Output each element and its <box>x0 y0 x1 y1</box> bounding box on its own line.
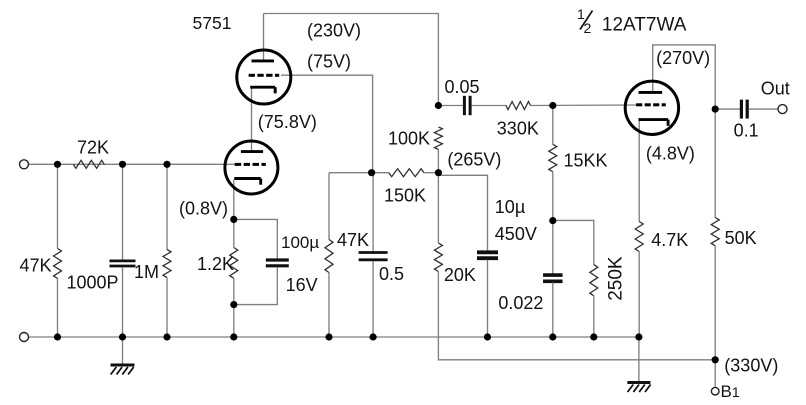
label (230V) <box>307 21 361 41</box>
node gnd/250K <box>590 333 597 340</box>
wire 1.2K bottom <box>233 278 235 337</box>
label 47K (node) <box>337 230 369 250</box>
node 330K / V2 grid <box>549 102 556 109</box>
node (330V) <box>712 356 719 363</box>
label (0.8V) <box>179 199 228 219</box>
wire 0.022 bottom <box>552 283 554 338</box>
triode V1b (upper half 5751) <box>237 50 291 104</box>
svg-text:(265V): (265V) <box>447 150 501 170</box>
wire V1b cathode to V1a plate <box>251 87 253 151</box>
node gnd/1000P <box>119 333 126 340</box>
terminal input top <box>20 160 29 169</box>
wire 250K jog <box>553 220 594 264</box>
resistor 1.2K <box>230 248 238 279</box>
label (270V) <box>656 48 710 68</box>
capacitor 0.1 <box>741 100 747 119</box>
wire 330K to grid junction and V2 grid <box>531 104 638 107</box>
capacitor 100u 16V <box>266 260 289 266</box>
label 12AT7WA <box>602 15 687 36</box>
node input/1M <box>163 161 170 168</box>
label (75.8V) <box>258 112 317 132</box>
svg-text:1000P: 1000P <box>67 273 119 293</box>
wire V2 plate loop <box>653 45 716 109</box>
svg-text:16V: 16V <box>286 275 318 295</box>
label 100u <box>281 233 319 252</box>
resistor 20K <box>434 243 442 272</box>
wire 47K input branch top <box>57 164 59 248</box>
node gnd/4.7K <box>635 333 642 340</box>
node gnd/47K-2 <box>325 333 332 340</box>
label 0.05 <box>445 77 480 97</box>
label 15KK <box>564 151 608 171</box>
wire 47K-2 bottom <box>328 273 330 338</box>
wire 10u top jog <box>438 175 487 251</box>
capacitor 1000P <box>110 261 136 266</box>
node 75V line / 150K <box>368 169 375 176</box>
label 16V <box>286 275 318 295</box>
wire 1000P branch top <box>122 164 124 259</box>
label 0.022 <box>498 293 543 313</box>
label 20K <box>444 265 476 285</box>
label 47K (input) <box>19 256 51 276</box>
label (265V) <box>447 150 501 170</box>
wire node line left segment (47K top) <box>329 172 389 174</box>
svg-text:0.5: 0.5 <box>379 264 404 284</box>
node (0.8V) <box>230 216 237 223</box>
svg-text:450V: 450V <box>495 224 537 244</box>
svg-text:47K: 47K <box>337 230 369 250</box>
wire (75V) grid line from V1b to node <box>281 75 373 173</box>
wire 50K bottom to (330V) <box>714 246 716 360</box>
wire 0.1 to Out terminal <box>749 108 779 110</box>
capacitor 10u 450V <box>477 252 498 258</box>
label (330V) <box>724 356 778 376</box>
label 4.7K <box>651 230 688 250</box>
svg-text:B1: B1 <box>721 382 740 401</box>
wire ground rail <box>28 336 639 338</box>
wire V1a cathode lead to (0.8V) node <box>233 180 235 220</box>
label 330K <box>497 119 539 139</box>
svg-text:1.2K: 1.2K <box>197 254 234 274</box>
svg-text:0.05: 0.05 <box>445 77 480 97</box>
node gnd/1M <box>163 333 170 340</box>
label (4.8V) <box>646 144 695 164</box>
label 250K (rotated) <box>606 256 627 301</box>
label 72K <box>77 138 109 158</box>
node 15KK/0.022/250K <box>549 217 556 224</box>
label 10u <box>495 197 525 217</box>
label 0.1 <box>734 121 759 141</box>
terminal B1 <box>711 387 719 395</box>
wire 1M branch top <box>166 164 168 249</box>
label Out <box>761 79 790 99</box>
label 100K <box>388 129 430 149</box>
label 50K <box>725 228 757 248</box>
terminal Out <box>778 105 787 114</box>
wire V1b plate lead <box>263 14 265 61</box>
wire 250K bottom <box>593 296 595 337</box>
wire 0.5 bottom <box>372 261 374 337</box>
resistor 47K (input) <box>54 249 62 279</box>
label 450V <box>495 224 537 244</box>
wire 15KK bottom to node <box>552 172 554 221</box>
wire 100u top jog <box>234 219 277 258</box>
svg-text:4.7K: 4.7K <box>651 230 688 250</box>
svg-text:150K: 150K <box>384 186 426 206</box>
resistor 250K <box>590 265 598 296</box>
node gnd/47K <box>54 333 61 340</box>
node gnd/1.2K <box>230 333 237 340</box>
wire 0.05 left lead <box>438 105 463 107</box>
label 1000P <box>67 273 119 293</box>
node gnd/0.5 <box>370 333 377 340</box>
node gnd/0.022 <box>549 333 556 340</box>
wire 1.2K top <box>233 219 235 247</box>
svg-text:47K: 47K <box>19 256 51 276</box>
wire 100K to (265V) node <box>437 150 439 173</box>
wire 15KK top <box>552 106 554 145</box>
triode V1a (lower half 5751) <box>225 141 278 194</box>
wire 47K-2 top <box>328 173 330 240</box>
node (265V) <box>435 169 442 176</box>
resistor 72K <box>73 160 104 168</box>
svg-text:(230V): (230V) <box>307 21 361 41</box>
capacitor 0.022 <box>543 275 563 281</box>
resistor 330K <box>506 102 531 110</box>
wire 20K top <box>437 173 439 243</box>
svg-text:(4.8V): (4.8V) <box>646 144 695 164</box>
terminal input bottom <box>20 333 29 342</box>
svg-text:0.1: 0.1 <box>734 121 759 141</box>
wire 100u bottom jog <box>234 267 277 304</box>
wire 0.05 to 330K <box>472 105 507 107</box>
wire 1000P branch bottom <box>122 267 124 337</box>
label 5751 <box>193 13 232 33</box>
wire node line right segment to (265V) <box>424 172 438 174</box>
svg-text:0.022: 0.022 <box>498 293 543 313</box>
wire 0.5 top <box>372 173 374 252</box>
label B1 <box>721 382 740 401</box>
wire top rail from V1b plate to 100K column <box>264 14 439 106</box>
svg-text:Out: Out <box>761 79 790 99</box>
wire 10u bottom <box>487 260 489 337</box>
svg-text:50K: 50K <box>725 228 757 248</box>
svg-text:72K: 72K <box>77 138 109 158</box>
node input/1000P <box>119 161 126 168</box>
resistor 1M <box>163 250 171 278</box>
svg-text:10µ: 10µ <box>495 197 525 217</box>
capacitor 0.5 <box>359 253 388 260</box>
resistor 150K <box>389 169 424 177</box>
label 0.5 <box>379 264 404 284</box>
resistor 4.7K <box>635 222 643 252</box>
node gnd/10u <box>484 333 491 340</box>
resistor 15KK <box>549 144 557 171</box>
resistor 47K (cathode of V1b node) <box>325 240 333 273</box>
svg-text:(270V): (270V) <box>656 48 710 68</box>
capacitor 0.05 <box>464 96 470 115</box>
svg-text:(330V): (330V) <box>724 356 778 376</box>
label 150K <box>384 186 426 206</box>
label 1.2K <box>197 254 234 274</box>
wire (330V) to B1 terminal <box>714 360 716 388</box>
node 1.2K/100u bottom <box>230 301 237 308</box>
wire 0.022 top <box>552 221 554 274</box>
wire 50K top <box>714 109 716 217</box>
svg-text:1M: 1M <box>134 262 159 282</box>
wire input rail (top-left) <box>28 163 235 165</box>
node 0.05 junction <box>435 102 442 109</box>
svg-text:15KK: 15KK <box>564 151 608 171</box>
ground (left) <box>111 337 135 375</box>
wire 47K input branch bottom <box>57 278 59 337</box>
svg-text:2: 2 <box>584 20 592 36</box>
triode V2 (half 12AT7WA) <box>625 81 678 134</box>
wire output node to 0.1 cap <box>715 108 740 110</box>
svg-text:(75.8V): (75.8V) <box>258 112 317 132</box>
svg-text:12AT7WA: 12AT7WA <box>602 15 687 36</box>
resistor 50K <box>711 218 719 246</box>
node input/47K <box>54 161 61 168</box>
wire B+ line from 20K to (330V) <box>438 272 715 360</box>
svg-text:5751: 5751 <box>193 13 232 33</box>
svg-text:(75V): (75V) <box>307 52 351 72</box>
label (75V) <box>307 52 351 72</box>
node V2 plate / output <box>712 106 719 113</box>
wire 1M branch bottom <box>166 278 168 338</box>
svg-text:20K: 20K <box>444 265 476 285</box>
ground (right) <box>627 337 650 392</box>
svg-text:100µ: 100µ <box>281 233 319 252</box>
svg-text:330K: 330K <box>497 119 539 139</box>
svg-text:250K: 250K <box>606 256 627 301</box>
resistor 100K <box>434 127 442 150</box>
label 1/2 fraction <box>577 6 593 36</box>
wire V2 cathode lead <box>638 121 640 222</box>
label 1M <box>134 262 159 282</box>
svg-text:(0.8V): (0.8V) <box>179 199 228 219</box>
svg-text:100K: 100K <box>388 129 430 149</box>
wire 4.7K bottom <box>638 252 640 338</box>
